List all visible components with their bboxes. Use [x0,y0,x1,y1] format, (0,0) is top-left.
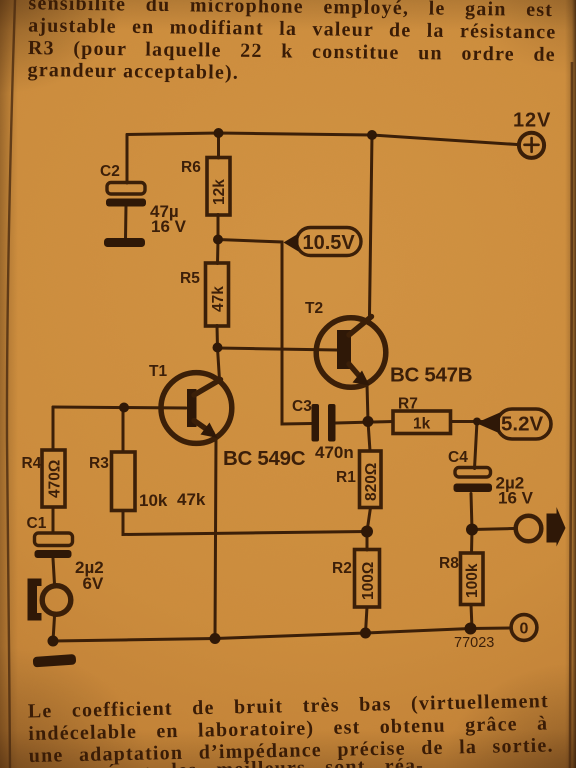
capacitor C2 [107,183,145,195]
resistor R2 [355,550,380,608]
junction node L (R8/ground rail) [465,623,477,635]
resistor R7 [393,411,451,434]
wire K to out circle [472,529,514,530]
ground under C2 [104,238,145,247]
wire J to R2 [366,532,369,551]
terminal output circle [516,516,542,542]
wire left drop to R4 [52,407,55,450]
resistor R6 [207,158,230,216]
resistor R8 [461,553,484,605]
callout 5.2V [497,409,551,439]
junction node I (T1 emitter/ground rail) [210,633,221,644]
resistor R1 [360,451,382,508]
wire R8 to L [471,605,472,629]
capacitor C1 [35,533,73,546]
wire mic to H [53,617,55,642]
wire R2 to M [366,607,368,633]
wire node C to R5 [216,240,220,264]
wire R7 to 5.2V tip [451,420,487,423]
wire bottom rail [53,628,511,641]
wire K to R8 [470,530,474,554]
wire bootstrap C to C3 [218,240,312,425]
wire E to R3 [122,408,125,453]
junction node C (R6/R5/bootstrap, 10.5V point) [213,235,223,245]
wire C3 to R7 through F [336,422,393,424]
wire T2 emitter to F [367,384,368,422]
wire C4 to K [471,494,472,530]
junction node H (mic/ground rail) [48,636,59,647]
wire D to T2 base [218,348,338,350]
microphone M1 [42,586,71,615]
resistor R5 [206,263,229,326]
junction node G (R7/C4/5.2V point) [473,418,481,426]
top paragraph [27,0,556,84]
wire G down to C4 [475,422,478,469]
wire T1 base [53,407,186,408]
bottom paragraph [28,690,554,768]
junction node K (C4/R8/output) [466,524,478,536]
wire R4 to C1 [52,507,55,533]
junction node M (R2/ground rail) [360,628,371,639]
wire D to T1 collector [218,348,220,380]
capacitor C3 [312,404,320,442]
wire C1 to mic [53,559,55,585]
ground under mic [33,654,77,667]
junction node D (R5/T1 collector/T2 base) [213,343,223,353]
wire top rail [127,133,517,145]
wire A to R6 [217,133,220,158]
wire R5 to node D [216,326,220,349]
wire R3 bottom to J [123,511,367,535]
schematic labels [22,110,552,652]
wire C2 to ground [124,205,128,239]
wire B to T2 collector [370,135,373,315]
terminal 12V plus [519,133,544,158]
junction node F (T2 emitter/C3/R7/R1) [363,416,374,427]
page left edge line [7,0,15,768]
junction node A (rail/R6) [214,128,224,138]
resistor R3 [112,452,136,511]
wire R1 to J [367,508,371,532]
resistor R4 [42,450,65,507]
capacitor C4 [455,468,491,478]
junction node J (R1/R2/R3 feedback) [361,526,373,538]
wire R6 to node C [217,215,220,241]
junction node E (T1 base/R4/R3) [119,403,129,413]
wire F to R1 [368,422,370,452]
output arrow [547,507,566,547]
terminal 0 [511,615,537,641]
transistor T2 [316,318,386,388]
wire T1 emitter down [215,438,216,639]
transistor T1 [161,373,232,444]
callout 10.5V [297,228,362,256]
page right edge line [570,62,572,768]
wire C2 drop [126,135,129,184]
junction node B (rail/T2 collector) [367,130,377,140]
